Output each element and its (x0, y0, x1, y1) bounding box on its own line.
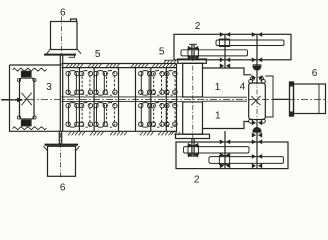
journal circles above vertical roll (251, 76, 255, 80)
motor M2 feet (44, 146, 80, 151)
shaft S1 (x=225) top (224, 34, 226, 68)
shaft S1 lower (224, 131, 226, 169)
feed roll unit 3: roll body (20, 78, 35, 119)
pass line upper (62, 96, 177, 98)
slider block on upper bar (bottom frame) (188, 146, 199, 155)
motor M1 terminal tab (71, 19, 77, 22)
bearing marks bottom box (220, 139, 230, 144)
gear frame top: lower slide bar (181, 50, 248, 56)
gear frame bottom: lower slide bar (209, 157, 284, 164)
bottom frame hatching (68, 132, 172, 136)
feed roll unit 3: X mark (22, 93, 32, 106)
svg-text:5: 5 (159, 47, 165, 58)
roller pair column c1 (solid) (66, 71, 79, 128)
motor M2 body (48, 146, 76, 176)
svg-text:5: 5 (95, 49, 101, 60)
shaft S2 (x=257) top (256, 34, 258, 83)
motor M2 (bottom, label 6): shaft double line (59, 131, 61, 144)
roller pair column c2 (dashed) (79, 71, 92, 128)
gear frame bottom: upper slide bar (184, 147, 250, 153)
feed roll unit 3: lower spring (13, 127, 47, 130)
motor M1 feet (47, 49, 82, 54)
vertical roll unit 4: body (249, 83, 266, 120)
motor M2 centerline (60, 133, 62, 178)
shaft S2 lower (256, 120, 258, 169)
pass line segments through stand (177, 97, 248, 102)
motor M1 centerline (61, 17, 63, 57)
svg-text:6: 6 (60, 7, 66, 18)
svg-text:4: 4 (240, 82, 246, 93)
slider block on lower bar (top frame) (188, 49, 199, 58)
shaft S3 (x=193) top (192, 44, 194, 59)
right motor M3: flange (290, 82, 294, 116)
unit 4 centerline (256, 60, 258, 140)
pass line lower (62, 100, 177, 102)
svg-text:6: 6 (60, 182, 66, 193)
svg-text:2: 2 (195, 21, 201, 32)
entry arrow (1, 98, 24, 103)
motor M2 base plate (45, 144, 79, 146)
feed roll unit 3: upper spring (13, 68, 47, 71)
stand upper cap (178, 59, 207, 63)
vertical roll unit 4: X mark (251, 96, 260, 105)
main horizontal centerline (2, 98, 327, 100)
motor M1 shaft (double line into box) (60, 55, 62, 132)
wall bracket bottom (171, 132, 180, 135)
stand lower cap / base (176, 134, 210, 138)
feed roll unit 3: lower bearing block (22, 120, 32, 126)
coupling on S2 upper (half-disc) (253, 65, 262, 70)
inner top frame line (62, 67, 177, 69)
vertical roll unit 4: bearing circles (249, 79, 253, 83)
svg-text:3: 3 (46, 82, 52, 93)
svg-text:1: 1 (215, 82, 221, 93)
wall bracket top (164, 60, 176, 63)
coupling on S2 lower (half-disc) (253, 128, 262, 133)
svg-text:6: 6 (312, 68, 318, 79)
shaft S3 lower (192, 139, 194, 157)
stand lower roll (183, 102, 203, 134)
svg-text:1: 1 (215, 111, 221, 122)
motor M1 (top left, label 6): body (51, 22, 78, 50)
top frame hatching (66, 64, 176, 68)
unit 4 right bracket (265, 76, 273, 117)
roller column shafts (78, 68, 80, 132)
roller pair column c3 (solid) (94, 71, 108, 128)
stand roll centerline (192, 56, 194, 141)
svg-text:2: 2 (194, 175, 200, 186)
roller pair column c4 (dashed) (107, 71, 118, 128)
right motor M3: shaft (273, 98, 290, 100)
feed roll unit 3: corner circles (17, 78, 20, 81)
mill housing outline (203, 68, 252, 129)
roller pair column c7 (dashed) (165, 71, 177, 128)
gear frame top (box 2): outer (174, 34, 291, 60)
roller pair column c5 (solid) (139, 71, 152, 128)
motor M1 base plate (44, 54, 76, 56)
right motor M3: body (294, 84, 326, 114)
gear frame top: upper slide bar (216, 40, 284, 46)
gear frame bottom (box 2): outer (176, 142, 288, 169)
leveler housing (left box) (10, 64, 177, 132)
roller pair column c6 (dashed) (151, 71, 164, 128)
slider block on lower bar (bottom frame) (219, 156, 229, 165)
stand upper roll (183, 63, 203, 97)
feed roll unit 3: upper bearing block (22, 71, 32, 76)
slider block on upper bar (top frame) (219, 39, 229, 47)
